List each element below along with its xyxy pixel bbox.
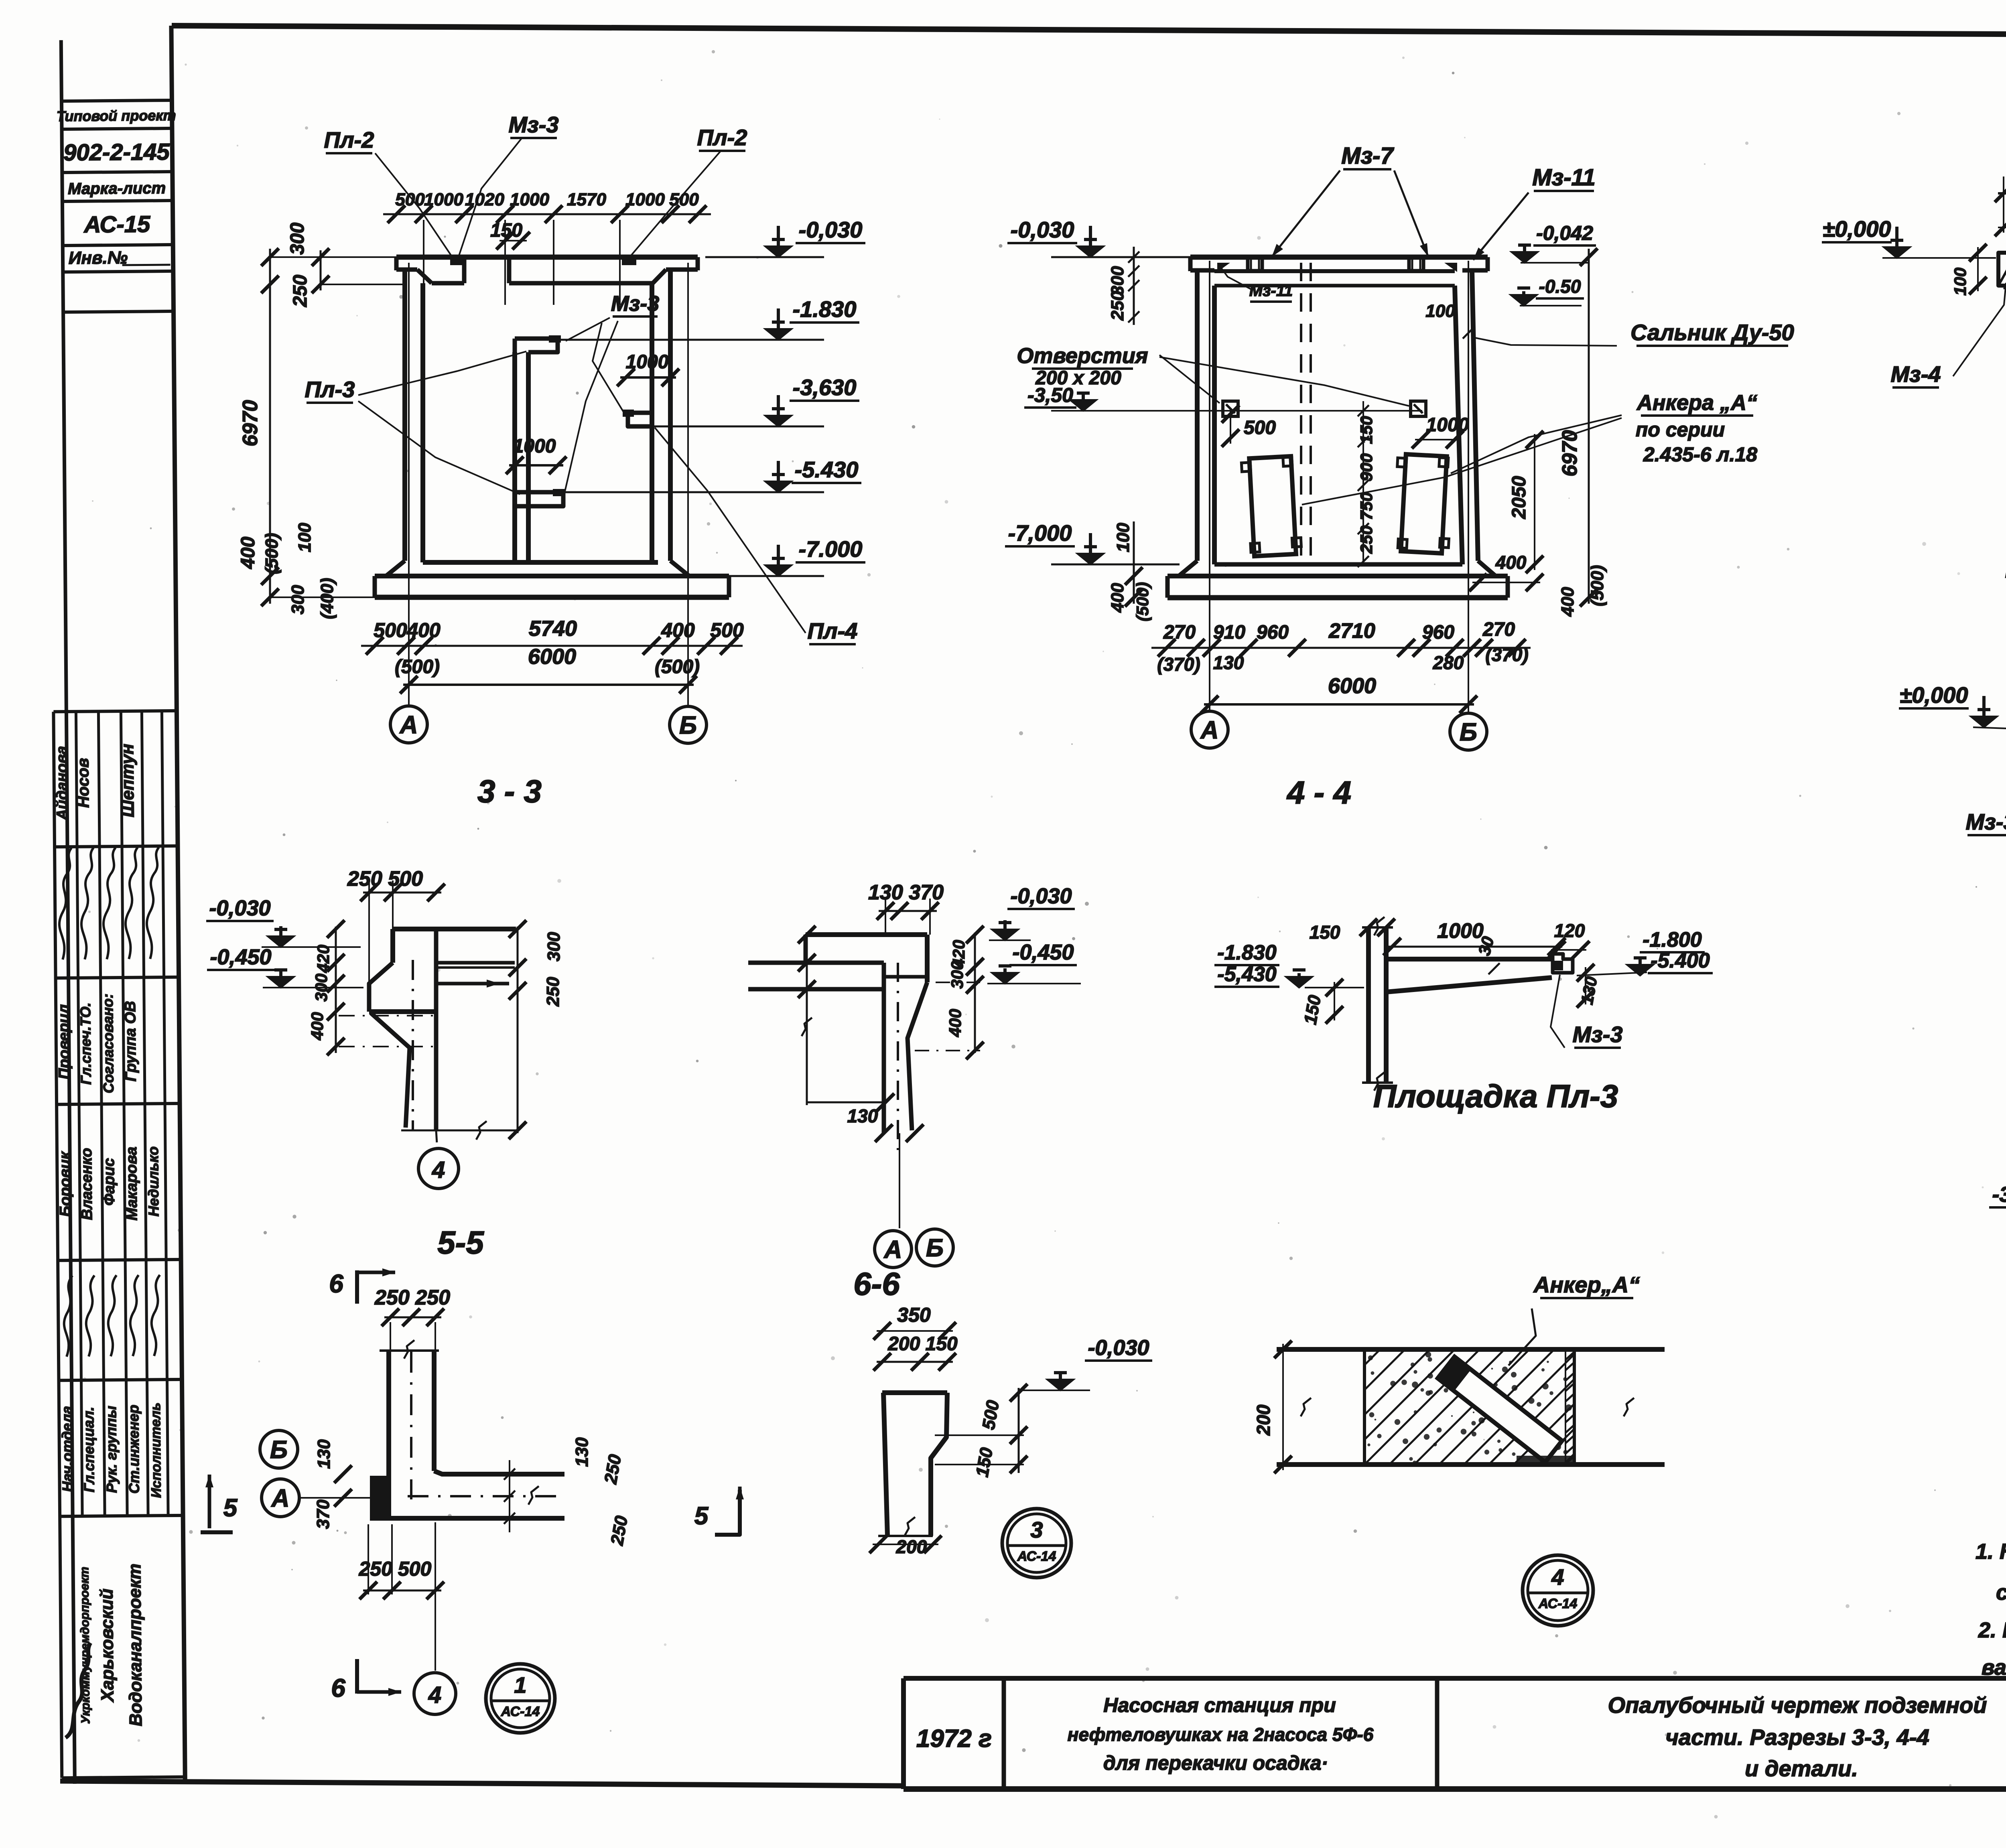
svg-text:270: 270 [1163, 622, 1196, 643]
svg-text:Отверстия: Отверстия [1017, 344, 1148, 368]
svg-text:-3,600: -3,600 [1992, 1183, 2006, 1207]
svg-text:200 150: 200 150 [887, 1333, 958, 1355]
svg-text:500: 500 [374, 619, 407, 641]
svg-text:-0,030: -0,030 [1010, 884, 1072, 908]
svg-text:А: А [399, 711, 418, 739]
svg-text:1000: 1000 [625, 190, 665, 209]
svg-text:Носов: Носов [74, 758, 92, 808]
svg-text:5: 5 [694, 1502, 709, 1530]
svg-text:Пл-4: Пл-4 [808, 618, 858, 643]
svg-text:АС-14: АС-14 [1538, 1596, 1578, 1611]
svg-text:(500): (500) [395, 656, 440, 678]
svg-text:Мз-3: Мз-3 [508, 112, 558, 137]
svg-text:Пл-3: Пл-3 [305, 377, 355, 402]
svg-text:±0,000: ±0,000 [1900, 682, 1968, 708]
svg-text:120: 120 [1554, 920, 1585, 941]
svg-text:4 - 4: 4 - 4 [1286, 775, 1351, 810]
svg-text:5740: 5740 [529, 617, 577, 641]
svg-text:Недилько: Недилько [145, 1146, 162, 1217]
svg-text:Айданова: Айданова [53, 746, 71, 820]
svg-text:2050: 2050 [1509, 476, 1530, 519]
svg-text:Шептун: Шептун [118, 744, 138, 818]
svg-text:300: 300 [287, 223, 308, 255]
svg-text:1000: 1000 [1437, 919, 1484, 943]
svg-text:500: 500 [395, 190, 425, 209]
svg-text:Рук. группы: Рук. группы [103, 1406, 120, 1493]
svg-text:Мз-11: Мз-11 [1532, 164, 1595, 191]
svg-text:250: 250 [290, 275, 311, 307]
svg-text:Власенко: Власенко [78, 1148, 95, 1220]
svg-text:4: 4 [432, 1157, 445, 1183]
svg-text:для перекачки осадка·: для перекачки осадка· [1103, 1752, 1328, 1774]
svg-text:(500): (500) [1133, 582, 1152, 621]
svg-text:902-2-145: 902-2-145 [63, 139, 170, 166]
svg-text:1: 1 [514, 1672, 526, 1698]
svg-text:Типовой проект: Типовой проект [57, 107, 176, 124]
svg-text:6: 6 [331, 1674, 345, 1702]
svg-text:-7,000: -7,000 [1008, 520, 1072, 546]
svg-text:100: 100 [1425, 301, 1455, 321]
svg-text:400: 400 [1108, 583, 1127, 613]
svg-text:-0,042: -0,042 [1536, 222, 1593, 244]
svg-text:2.435-6 л.18: 2.435-6 л.18 [1643, 443, 1757, 466]
svg-text:варианта с грунтовыми водам: варианта с грунтовыми водами. [1982, 1655, 2006, 1680]
svg-text:400: 400 [946, 1009, 964, 1037]
svg-text:250 250: 250 250 [374, 1286, 450, 1309]
svg-text:Группа ОВ: Группа ОВ [122, 1001, 140, 1081]
svg-text:400: 400 [661, 619, 695, 641]
svg-text:Мз-3: Мз-3 [611, 292, 660, 316]
svg-text:6-6: 6-6 [853, 1266, 900, 1302]
svg-text:5: 5 [223, 1494, 238, 1522]
svg-text:Анкер„А“: Анкер„А“ [1533, 1272, 1640, 1297]
svg-text:100: 100 [295, 523, 315, 552]
svg-text:6970: 6970 [1558, 430, 1582, 477]
svg-text:А: А [1200, 716, 1219, 744]
svg-text:1. Настоящий чертеж рассматрив: 1. Настоящий чертеж рассматривать совмес… [1976, 1540, 2006, 1564]
svg-text:130: 130 [847, 1106, 878, 1126]
svg-text:270: 270 [1482, 619, 1515, 640]
svg-text:300: 300 [288, 585, 308, 615]
svg-text:-3,50: -3,50 [1027, 384, 1073, 406]
svg-text:Б: Б [1460, 718, 1477, 746]
svg-text:Насосная станция при: Насосная станция при [1103, 1694, 1336, 1716]
svg-text:-0,450: -0,450 [1012, 940, 1074, 964]
svg-text:250: 250 [1108, 291, 1127, 321]
svg-text:400: 400 [238, 537, 259, 569]
svg-text:-0,450: -0,450 [210, 945, 271, 969]
svg-text:4: 4 [428, 1682, 441, 1708]
svg-text:910: 910 [1213, 622, 1245, 643]
svg-text:-7.000: -7.000 [799, 536, 863, 562]
svg-text:300: 300 [948, 961, 966, 989]
svg-text:6000: 6000 [528, 645, 576, 669]
svg-text:Анкера „А“: Анкера „А“ [1636, 391, 1757, 415]
svg-text:280: 280 [1433, 652, 1464, 673]
svg-text:-5.430: -5.430 [795, 457, 859, 482]
svg-text:-5,430: -5,430 [1217, 963, 1277, 986]
svg-text:Мз-3: Мз-3 [1572, 1022, 1622, 1047]
svg-text:900: 900 [1357, 453, 1376, 481]
svg-text:500: 500 [710, 619, 744, 641]
svg-text:200: 200 [896, 1536, 927, 1557]
svg-text:5-5: 5-5 [437, 1225, 484, 1260]
svg-text:1020: 1020 [465, 190, 504, 209]
svg-text:Пл-2: Пл-2 [324, 127, 374, 152]
svg-text:150: 150 [972, 1446, 997, 1479]
svg-text:-0,030: -0,030 [209, 896, 270, 920]
svg-text:3: 3 [1030, 1517, 1043, 1542]
svg-text:и детали.: и детали. [1745, 1756, 1858, 1781]
svg-text:А: А [883, 1236, 902, 1264]
svg-text:100: 100 [1113, 523, 1133, 552]
svg-text:1000: 1000 [510, 190, 549, 209]
svg-text:части. Разрезы 3-3, 4-4: части. Разрезы 3-3, 4-4 [1665, 1724, 1929, 1750]
svg-text:1000: 1000 [626, 351, 669, 373]
svg-text:370: 370 [313, 1499, 333, 1529]
svg-text:±0,000: ±0,000 [1823, 216, 1891, 241]
svg-text:АС-14: АС-14 [501, 1704, 540, 1719]
svg-text:130: 130 [1213, 652, 1244, 673]
svg-text:Боровик: Боровик [57, 1151, 74, 1217]
svg-text:130: 130 [572, 1437, 592, 1467]
svg-text:-0.50: -0.50 [1539, 276, 1581, 297]
svg-text:4: 4 [1551, 1564, 1564, 1590]
svg-text:960: 960 [1422, 622, 1454, 643]
svg-text:Б: Б [679, 712, 697, 739]
svg-text:-5.400: -5.400 [1651, 949, 1710, 972]
svg-text:Площадка Пл-3: Площадка Пл-3 [1373, 1078, 1618, 1114]
svg-text:1972 г: 1972 г [916, 1725, 992, 1753]
svg-text:2710: 2710 [1328, 619, 1375, 643]
svg-text:нефтеловушках на 2насоса 5Ф-6: нефтеловушках на 2насоса 5Ф-6 [1068, 1724, 1374, 1745]
svg-text:(500): (500) [1588, 565, 1607, 607]
svg-text:3 - 3: 3 - 3 [477, 773, 542, 809]
svg-text:АС-15: АС-15 [83, 211, 150, 237]
svg-text:250 500: 250 500 [347, 867, 423, 891]
svg-text:Опалубочный чертеж подземной: Опалубочный чертеж подземной [1608, 1692, 1987, 1718]
svg-text:250: 250 [1357, 525, 1376, 554]
svg-text:-0,030: -0,030 [1088, 1336, 1149, 1360]
svg-text:400: 400 [406, 619, 441, 641]
svg-text:750: 750 [1357, 492, 1376, 520]
svg-text:400: 400 [308, 1012, 327, 1041]
svg-text:Б: Б [926, 1234, 944, 1262]
svg-text:Инв.№: Инв.№ [69, 248, 128, 268]
svg-text:-1.800: -1.800 [1643, 928, 1702, 951]
svg-text:960: 960 [1257, 622, 1289, 643]
svg-text:-3,630: -3,630 [793, 375, 857, 400]
svg-text:(370): (370) [1485, 644, 1528, 665]
svg-text:Проверил: Проверил [55, 1004, 73, 1079]
svg-text:Харьковский: Харьковский [97, 1588, 118, 1703]
svg-text:300: 300 [544, 932, 564, 962]
svg-text:150: 150 [1310, 922, 1340, 943]
svg-text:250: 250 [543, 977, 563, 1007]
svg-text:Мз-3: Мз-3 [1965, 809, 2006, 834]
svg-text:(400): (400) [317, 578, 337, 619]
svg-text:130: 130 [314, 1439, 334, 1469]
svg-text:6970: 6970 [239, 400, 262, 446]
svg-text:Мз-11: Мз-11 [1249, 282, 1293, 300]
svg-text:Согласовано:: Согласовано: [99, 994, 117, 1093]
svg-text:Сальник Ду-50: Сальник Ду-50 [1630, 320, 1794, 345]
svg-text:-0,030: -0,030 [799, 217, 863, 242]
svg-text:с листами АС-3,4,14.: с листами АС-3,4,14. [1996, 1580, 2006, 1605]
svg-text:350: 350 [897, 1304, 931, 1326]
svg-text:Б: Б [270, 1436, 288, 1464]
svg-text:Фарис: Фарис [101, 1158, 118, 1206]
svg-text:100: 100 [1951, 268, 1969, 296]
svg-text:по серии: по серии [1636, 418, 1725, 441]
svg-text:АС-14: АС-14 [1017, 1549, 1056, 1564]
svg-text:200: 200 [1253, 1404, 1274, 1436]
svg-text:500: 500 [979, 1399, 1003, 1431]
svg-text:420: 420 [314, 945, 333, 973]
svg-text:150: 150 [1300, 994, 1325, 1026]
svg-text:250 500: 250 500 [359, 1558, 432, 1580]
svg-text:-1.830: -1.830 [793, 296, 857, 322]
svg-text:(370): (370) [1157, 654, 1200, 675]
svg-text:6000: 6000 [1328, 674, 1376, 698]
svg-text:Гл.спеч.ТО.: Гл.спеч.ТО. [77, 1002, 94, 1085]
svg-text:1570: 1570 [567, 190, 606, 209]
svg-text:Мз-7: Мз-7 [1341, 143, 1394, 169]
svg-text:1000: 1000 [424, 190, 463, 209]
svg-text:Пл-2: Пл-2 [697, 125, 747, 150]
svg-text:Макарова: Макарова [123, 1147, 140, 1221]
svg-text:250: 250 [607, 1514, 631, 1547]
svg-text:Исполнитель: Исполнитель [148, 1402, 164, 1498]
svg-text:Ст.инженер: Ст.инженер [125, 1405, 142, 1494]
svg-text:2. Размеры в скобках даны: 2. Размеры в скобках даны для [1978, 1618, 2006, 1642]
svg-text:(500): (500) [655, 656, 700, 678]
svg-text:130 370: 130 370 [868, 881, 944, 904]
svg-text:250: 250 [601, 1453, 625, 1486]
svg-text:Гл.специал.: Гл.специал. [80, 1407, 97, 1493]
svg-text:Водоканалпроект: Водоканалпроект [125, 1564, 146, 1726]
svg-text:Нач.отдела: Нач.отдела [59, 1406, 76, 1492]
svg-text:(500): (500) [262, 533, 282, 574]
svg-text:1000: 1000 [513, 436, 556, 457]
svg-text:500: 500 [1244, 417, 1276, 438]
svg-text:400: 400 [1558, 587, 1578, 617]
svg-text:А: А [271, 1485, 290, 1512]
svg-text:Мз-4: Мз-4 [1890, 361, 1941, 387]
svg-text:6: 6 [329, 1269, 343, 1298]
svg-text:-0,030: -0,030 [1011, 217, 1074, 242]
svg-text:Марка-лист: Марка-лист [68, 179, 166, 198]
svg-text:400: 400 [1495, 552, 1527, 573]
svg-text:-1.830: -1.830 [1217, 941, 1277, 964]
svg-text:300: 300 [312, 974, 331, 1002]
